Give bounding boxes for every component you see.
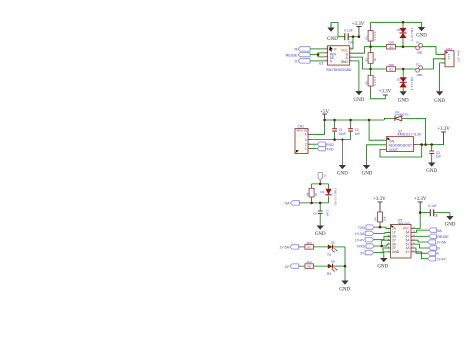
ground GND9 (under C6) <box>315 226 326 238</box>
svg-text:SMAJ6.5: SMAJ6.5 <box>410 77 414 91</box>
svg-text:2: 2 <box>305 143 307 147</box>
net flag R (U5 right) <box>428 251 440 256</box>
svg-text:BOUT: BOUT <box>403 144 412 148</box>
fuse F1 <box>416 40 424 54</box>
power flag +3.3V (bias chain) <box>379 90 392 96</box>
svg-text:3Y: 3Y <box>360 251 365 255</box>
node rail junctions <box>323 119 326 122</box>
wire A line <box>371 59 445 69</box>
svg-text:GND: GND <box>426 169 437 174</box>
svg-text:4: 4 <box>305 133 307 137</box>
net flag RXD (U5) <box>357 244 374 249</box>
net flag RXD (CN1) <box>311 142 334 147</box>
node A bias junction <box>369 68 372 71</box>
wire to R7 <box>299 246 328 248</box>
node rail-D5 junction <box>402 21 405 24</box>
node RE/DE junction <box>317 53 320 56</box>
wire CN1 pin4 to +5V <box>311 120 325 134</box>
wire +3.3V output node <box>416 144 444 146</box>
svg-text:C6: C6 <box>313 211 317 215</box>
capacitor C1 10uF <box>332 120 346 140</box>
svg-text:1K: 1K <box>314 193 318 196</box>
resistor R3 20R <box>387 63 396 72</box>
U5 pin stubs <box>388 229 415 252</box>
svg-text:R7: R7 <box>308 246 312 250</box>
svg-text:D4: D4 <box>321 190 325 194</box>
net flag R <box>294 47 310 52</box>
svg-text:TXD: TXD <box>358 226 366 230</box>
svg-text:F2: F2 <box>416 63 420 67</box>
svg-text:1 2 3: 1 2 3 <box>447 54 451 60</box>
node RC bottom junctions <box>310 202 313 205</box>
svg-text:+3.3V: +3.3V <box>373 197 386 202</box>
resistor R1 500R (top of bias chain) <box>364 22 377 46</box>
connector CN1 4Pin JST <box>295 124 311 153</box>
resistor R5 500R (bottom of bias chain) <box>364 69 385 99</box>
wire U3 GND pin down <box>352 61 359 91</box>
svg-text:1uF: 1uF <box>436 155 442 159</box>
power flag +3.3V (output) <box>437 127 450 145</box>
net flag 1Y-5A (U5 left) <box>355 231 374 236</box>
ground GND5 (under CN2) <box>434 91 445 104</box>
svg-text:20R: 20R <box>388 63 394 67</box>
wire U3 B pin to bias node <box>352 47 370 54</box>
wire LED D6 to gnd rail <box>333 246 345 248</box>
svg-text:D: D <box>437 247 440 251</box>
node LED gnd junction <box>344 265 347 268</box>
node TXD pullup junction <box>379 226 382 229</box>
svg-text:10K: 10K <box>382 216 386 221</box>
wire R flag to U3 <box>310 48 325 50</box>
svg-text:GND: GND <box>341 60 349 64</box>
svg-text:TXD: TXD <box>326 147 334 151</box>
svg-text:GND: GND <box>416 34 427 39</box>
svg-text:R6: R6 <box>305 192 309 196</box>
net flag 3Y (LED row) <box>285 264 299 269</box>
svg-text:R1: R1 <box>364 36 368 40</box>
svg-text:+3.3V: +3.3V <box>437 127 450 132</box>
svg-text:GND: GND <box>362 172 373 177</box>
svg-text:SN75HVD08D: SN75HVD08D <box>326 68 352 72</box>
svg-text:1Y-5A: 1Y-5A <box>355 232 365 236</box>
wire U3 A pin to bias node <box>352 57 370 69</box>
wire 5Y to D flag <box>414 244 429 248</box>
svg-text:2K2: 2K2 <box>307 241 313 245</box>
svg-text:1Y-4Y: 1Y-4Y <box>436 257 446 261</box>
svg-text:0.1uF: 0.1uF <box>428 204 436 208</box>
svg-text:3: 3 <box>305 138 307 142</box>
svg-text:GND: GND <box>353 98 364 103</box>
svg-text:1Y: 1Y <box>323 174 327 178</box>
ground GND3 (top right) <box>416 27 427 39</box>
node VCC junction at C4 <box>358 35 361 38</box>
svg-text:1: 1 <box>305 147 307 151</box>
U3 pin stubs <box>325 49 353 61</box>
wire U2 ADJ/GND to ground <box>367 145 387 165</box>
svg-text:GND: GND <box>339 288 350 293</box>
capacitor C6 <box>313 203 330 226</box>
capacitor C8 0.1uF <box>420 204 450 217</box>
node B bias junction <box>369 45 372 48</box>
node RC top junction <box>319 183 322 186</box>
LED D8 RX <box>327 260 337 276</box>
ground GND1 (left of C4) <box>327 23 338 43</box>
svg-text:CN2: CN2 <box>446 47 452 51</box>
resistor R4 20R <box>387 41 396 50</box>
svg-text:2.2nF: 2.2nF <box>326 210 330 217</box>
net flag RE/DE (U5 right) <box>429 234 449 239</box>
wire 6Y to RE/DE flag <box>414 235 429 237</box>
wire CN2 pin3 to ground <box>440 63 445 91</box>
svg-text:R4: R4 <box>389 45 393 49</box>
ground GND7 (under U2 adj) <box>362 165 373 177</box>
svg-text:4Pin JST: 4Pin JST <box>297 128 310 132</box>
resistor R6 1K <box>305 184 318 203</box>
wire 4A to R flag <box>414 248 428 253</box>
gate U5 74HC04D body <box>391 218 412 258</box>
svg-text:500R: 500R <box>373 76 377 85</box>
wire 4Y to 1Y-4Y flag <box>414 252 428 259</box>
ground GND11 (under C7) <box>445 213 456 228</box>
LED D6 TX <box>327 240 337 256</box>
ground GND6 (under C1/C2) <box>337 165 348 177</box>
svg-text:20R: 20R <box>388 41 394 45</box>
svg-text:R: R <box>294 48 297 52</box>
net flag 1Y-5A (LED row) <box>279 245 298 250</box>
svg-text:R2: R2 <box>364 58 368 62</box>
net flag TXD (U5) <box>358 225 375 230</box>
wire rail to U2 VIN <box>369 120 386 140</box>
svg-text:1Y-5A: 1Y-5A <box>279 246 289 250</box>
diode D5 SMAJ6.5 TVS <box>397 22 414 46</box>
wire 1Y-5A to 1Y <box>374 232 391 233</box>
svg-text:PMLL4148L: PMLL4148L <box>333 189 337 207</box>
svg-text:R8: R8 <box>308 265 312 269</box>
net flag 5A (left) <box>285 201 299 206</box>
svg-text:74HC04D: 74HC04D <box>397 221 410 225</box>
wire RC bottom rail <box>300 202 329 204</box>
svg-text:VOUT: VOUT <box>389 148 398 152</box>
svg-text:D8: D8 <box>331 260 335 264</box>
node output junctions <box>420 143 423 146</box>
svg-text:R9: R9 <box>374 217 378 221</box>
wire D flag to U3 <box>310 60 325 62</box>
svg-text:AMS1117-3.3V: AMS1117-3.3V <box>397 133 422 137</box>
svg-text:D3: D3 <box>397 78 401 82</box>
svg-text:RXD: RXD <box>326 143 334 147</box>
net flag TXD (CN1) <box>311 147 334 152</box>
svg-text:10BL: 10BL <box>416 73 423 77</box>
ground GND8 (under C3) <box>426 163 437 175</box>
wire 5A pin to 1Y-5A flag <box>414 240 428 242</box>
net flag 1Y-4Y (U5 right) <box>428 257 447 262</box>
wire +5V rail <box>325 119 385 121</box>
net flag RE/DE <box>286 52 310 57</box>
diode D1 1N4007G <box>384 110 425 145</box>
node gnd bus junctions <box>333 138 336 141</box>
power flag +5V <box>320 110 329 120</box>
wire top GND rail <box>371 22 422 27</box>
diode D3 SMAJ6.5 TVS <box>397 69 414 91</box>
power flag +3.3V (U5 VCC) <box>414 197 427 229</box>
wire port to RC top rail <box>312 180 329 184</box>
wire 3Y flag to 3Y pin <box>374 248 391 253</box>
svg-text:R: R <box>436 252 439 256</box>
U3 pin numbers <box>326 47 353 61</box>
wire RE/DE split to RE# and DE pins <box>310 53 325 57</box>
wire CN1 pin3 ground bus <box>311 139 351 141</box>
svg-text:GND: GND <box>337 172 348 177</box>
svg-text:GND: GND <box>392 250 400 254</box>
fuse F2 <box>416 63 424 77</box>
svg-text:D5: D5 <box>397 28 401 32</box>
wire to R8 <box>299 265 328 267</box>
op-amp U3 SN75HVD08D body <box>328 46 350 65</box>
wire VCC riser to U3 <box>349 37 353 49</box>
power flag +3.3V (TXD pullup) <box>373 197 386 212</box>
node A line D3 junction <box>402 68 405 71</box>
svg-text:GND: GND <box>377 265 388 270</box>
svg-text:GND: GND <box>445 222 456 227</box>
wire GND1 hook to C4 left plate <box>331 23 345 37</box>
node B line D5 junction <box>402 45 405 48</box>
svg-text:5A: 5A <box>285 202 290 206</box>
ground GND12 (U5) <box>377 258 388 270</box>
capacitor C3 1uF <box>429 145 441 163</box>
svg-text:RXD: RXD <box>357 245 365 249</box>
ground GND4 (under D3) <box>398 91 409 103</box>
svg-text:GND: GND <box>315 232 326 237</box>
svg-text:U3: U3 <box>319 62 323 66</box>
svg-text:1Y-4Y: 1Y-4Y <box>355 238 365 242</box>
svg-text:10uF: 10uF <box>339 132 346 136</box>
svg-text:+3.3V: +3.3V <box>414 197 427 202</box>
wire gnd bus drop <box>341 140 343 165</box>
resistor R7 2K2 <box>305 241 314 250</box>
svg-text:D6: D6 <box>331 240 335 244</box>
svg-text:GND: GND <box>398 99 409 104</box>
wire LED gnd rail <box>344 247 346 281</box>
svg-text:1uF: 1uF <box>355 132 361 136</box>
svg-text:F1: F1 <box>416 40 420 44</box>
svg-text:10BL: 10BL <box>416 51 423 55</box>
wire LED D8 to gnd rail <box>333 265 345 267</box>
U5 pin numbers <box>388 227 416 252</box>
svg-text:1K: 1K <box>373 58 377 61</box>
svg-text:SMAJ6.5: SMAJ6.5 <box>410 28 414 42</box>
wire U5 GND pin <box>384 252 391 258</box>
svg-text:C8: C8 <box>434 214 438 218</box>
net port 1Y (top) <box>318 173 327 181</box>
svg-text:RE/DE: RE/DE <box>286 53 298 57</box>
svg-text:GND: GND <box>327 37 338 42</box>
node C7 branch junction <box>419 211 422 214</box>
svg-text:RE/DE: RE/DE <box>437 235 449 239</box>
net flag 5A (U5 right) <box>429 228 443 233</box>
net flag D <box>294 59 310 64</box>
power flag +3.3V (top) <box>352 22 365 37</box>
resistor R9 10K pullup <box>374 212 387 227</box>
svg-text:D: D <box>294 60 297 64</box>
net flag 1Y-5A (U5 right) <box>428 240 447 245</box>
svg-text:500R: 500R <box>373 31 377 40</box>
wire RXD to 2Y and 3A <box>374 240 390 246</box>
svg-text:2K2: 2K2 <box>307 260 313 264</box>
svg-text:C4: C4 <box>348 41 352 45</box>
wire B line <box>371 47 445 55</box>
svg-text:+3.3V: +3.3V <box>379 90 392 95</box>
svg-text:1N4007G: 1N4007G <box>395 113 410 117</box>
svg-text:R5: R5 <box>364 81 368 85</box>
svg-text:R3: R3 <box>389 68 393 72</box>
net flag 1Y-4Y (U5 left) <box>355 238 374 243</box>
wire TXD to 1A <box>374 227 390 228</box>
connector CN2 3Pin JST <box>442 47 461 67</box>
svg-text:1Y-5A: 1Y-5A <box>436 241 446 245</box>
net flag D (U5 right) <box>429 246 440 251</box>
net flag 3Y (U5 left) <box>360 250 374 255</box>
node RXD junction <box>380 245 383 248</box>
wire C4 right plate to +3.3V node <box>348 36 359 38</box>
resistor R8 2K2 <box>305 260 314 269</box>
capacitor C4 0.1uF <box>344 29 352 45</box>
svg-text:GND: GND <box>434 99 445 104</box>
svg-text:3Y: 3Y <box>285 265 290 269</box>
diode D4 PMLL4148L <box>321 184 338 206</box>
wire 1Y-4Y to 2A <box>374 236 391 239</box>
wire U2 VOUT loop <box>380 145 422 157</box>
svg-text:3Pin JST: 3Pin JST <box>457 50 461 62</box>
svg-text:5A: 5A <box>437 229 442 233</box>
resistor R2 1K (middle of bias chain) <box>364 47 377 69</box>
regulator U2 AMS1117-3.3V <box>386 129 422 152</box>
capacitor C2 1uF <box>348 120 360 140</box>
ground GND10 (LEDs) <box>339 281 350 293</box>
wire 6A to 5A flag <box>414 230 429 232</box>
ground GND2 (under U3) <box>353 91 364 103</box>
svg-text:0.1uF: 0.1uF <box>344 29 352 33</box>
